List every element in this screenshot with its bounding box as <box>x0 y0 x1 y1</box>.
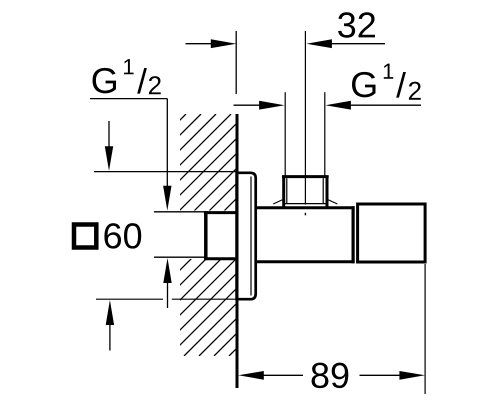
dim 89 left arrow <box>238 371 263 380</box>
extension line thread left <box>284 92 286 176</box>
dim 60 top arrow shaft <box>108 121 110 147</box>
outlet thread right chamfer line <box>328 200 337 204</box>
dim G1/2 left up arrow shaft <box>167 282 169 308</box>
dim G1/2 left leader horizontal <box>90 98 167 100</box>
dim 60 ext line bottom right part <box>172 298 236 300</box>
dim 89 text <box>312 363 349 388</box>
handle square <box>358 204 426 262</box>
dim 60 square symbol <box>74 225 96 248</box>
dim 89 right arrow <box>399 371 425 380</box>
outlet thread right root line <box>322 178 324 203</box>
dim G1/2 left leader vertical <box>166 99 168 187</box>
escutcheon plate <box>237 173 256 299</box>
dim G1/2 right left arrow <box>259 101 285 110</box>
dim G1/2 right line left tail <box>234 104 261 106</box>
centerline outlet pipe <box>304 31 306 205</box>
dim 32 left line <box>186 43 213 45</box>
outlet thread bottom line <box>284 203 326 205</box>
dim G1/2 left text <box>93 59 161 94</box>
valve body top edge <box>257 206 355 209</box>
valve body bottom edge <box>257 260 355 263</box>
dim 89 left line <box>263 374 303 376</box>
outlet thread fill <box>278 176 332 207</box>
dim 60 bottom arrow <box>106 300 114 325</box>
extension line wall face (top) <box>235 31 237 94</box>
valve body fill <box>257 206 355 263</box>
wall face line <box>236 114 239 388</box>
dim 60 bottom arrow shaft <box>109 324 111 351</box>
dim 60 ext line bottom left part <box>96 298 163 300</box>
wall hatching <box>0 114 471 356</box>
dim 32 right arrow <box>306 39 332 48</box>
dim 32 left arrow <box>211 39 237 48</box>
outlet thread left wall <box>282 177 285 207</box>
dim 60 text <box>104 223 141 248</box>
wall union nut bottom edge <box>204 257 237 260</box>
inlet pipe bottom edge <box>154 256 204 258</box>
dim G1/2 right right arrow <box>325 101 351 110</box>
dim 60 ext line top <box>94 171 236 173</box>
dim 60 top arrow <box>105 146 113 171</box>
inlet pipe white interior <box>154 211 237 260</box>
dim G1/2 right text <box>352 64 421 100</box>
outlet thread right wall <box>326 177 329 207</box>
dim 89 ext line right <box>424 264 426 394</box>
dim 89 right line <box>360 374 401 376</box>
escutcheon plate inner face line <box>250 177 252 296</box>
wall union nut left edge <box>204 211 208 260</box>
outlet thread left chamfer line <box>273 200 282 204</box>
centerline dot below body top <box>304 213 306 216</box>
valve body right edge <box>352 206 355 263</box>
extension line thread right <box>324 92 326 176</box>
dim 32 text <box>338 12 375 37</box>
dim G1/2 left up arrow <box>163 258 171 283</box>
outlet thread top edge <box>282 175 329 178</box>
dim 32 right line <box>331 43 385 45</box>
dim G1/2 right right tail <box>350 104 421 106</box>
outlet thread left root line <box>286 178 288 203</box>
dim G1/2 left down arrow <box>163 186 171 211</box>
inlet pipe top edge <box>154 211 204 213</box>
wall union nut top edge <box>204 211 237 214</box>
